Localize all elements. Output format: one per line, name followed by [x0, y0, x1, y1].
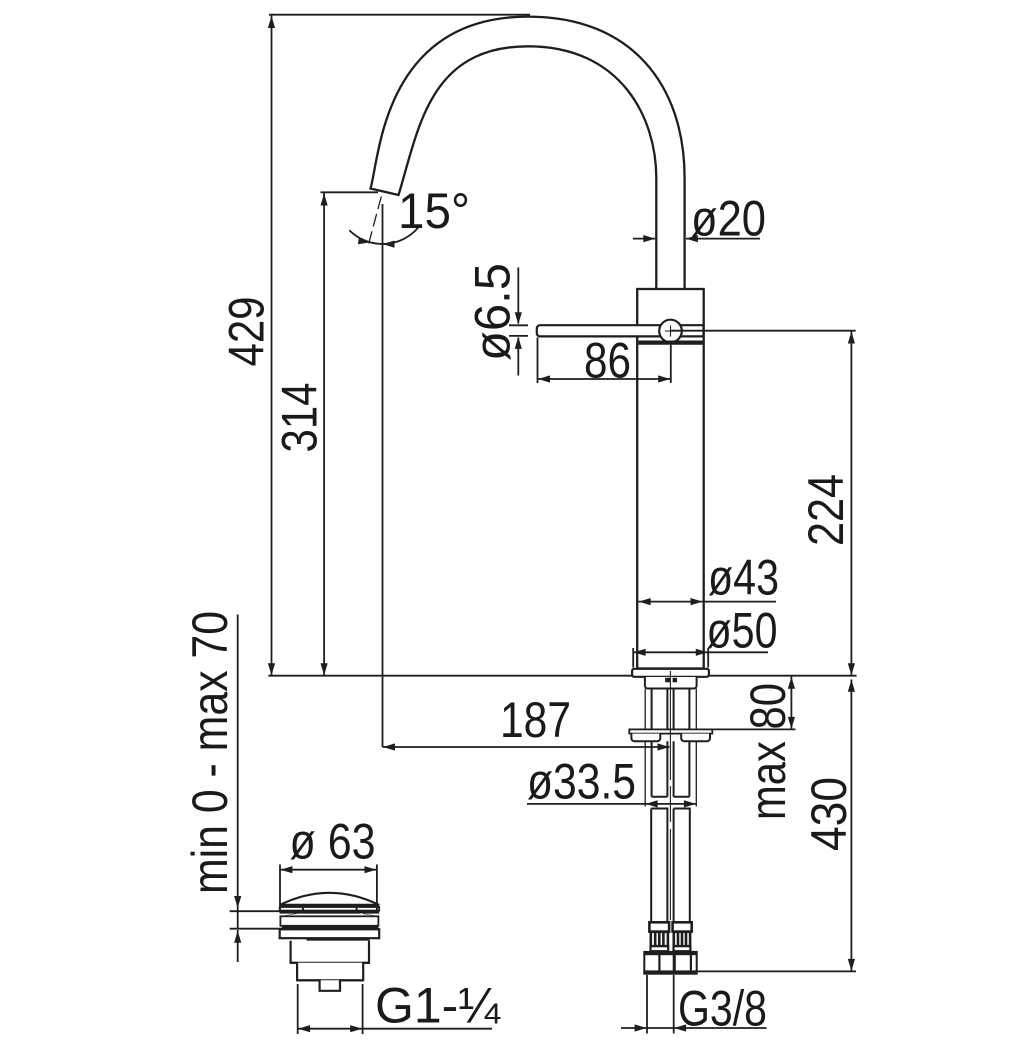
dim G1-1/4 extension lines — [298, 984, 363, 1034]
dim o63 extension lines — [280, 865, 377, 914]
svg-text:ø43: ø43 — [708, 550, 779, 606]
15deg arc right arrow — [383, 241, 395, 248]
dim o33.5 right arrow — [684, 800, 696, 807]
deck line left segment — [268, 675, 632, 677]
dim o6.5 ticks — [509, 325, 528, 336]
drain barrel — [291, 941, 369, 963]
svg-text:G1-¼: G1-¼ — [375, 978, 501, 1034]
svg-text:314: 314 — [272, 383, 328, 453]
dim o6.5 upper arrow — [515, 312, 522, 324]
min0max70 up arrow — [234, 931, 241, 943]
dim 187 line — [383, 746, 670, 748]
lever handle rod — [537, 325, 704, 336]
dim G3/8 left arrow — [635, 1024, 647, 1031]
svg-text:429: 429 — [219, 297, 275, 367]
right hose nipple band — [674, 946, 691, 951]
svg-text:86: 86 — [584, 333, 631, 389]
dim 224 top arrow — [848, 332, 855, 344]
dim o63 right arrow — [365, 866, 377, 873]
dim 314 top extension line — [321, 191, 379, 193]
drain cap bottom rim thick line — [280, 904, 380, 907]
15deg angle arc — [349, 228, 418, 244]
dim 430 vertical line — [850, 680, 852, 971]
svg-text:15°: 15° — [398, 183, 470, 239]
collar thread marks — [665, 678, 670, 683]
svg-text:ø 63: ø 63 — [290, 814, 376, 870]
min0max70 lower stub line — [237, 930, 239, 962]
spout gooseneck tube outline — [371, 17, 685, 290]
base plate — [632, 669, 709, 677]
hose walls mid segment — [652, 741, 690, 797]
shank collar — [645, 677, 697, 689]
min0max70 down arrow — [234, 896, 241, 908]
right hex nut — [675, 952, 697, 974]
dim 86 right extension line — [670, 343, 672, 383]
dim 86 line — [538, 378, 671, 380]
15deg arc left arrow — [358, 237, 371, 246]
dim 187 left arrow — [383, 743, 395, 750]
rim band notches — [303, 907, 357, 911]
dim 429 bottom arrow — [268, 663, 275, 675]
under flange shadow — [307, 938, 370, 940]
svg-text:ø33.5: ø33.5 — [527, 754, 636, 810]
dim 314 bottom arrow — [321, 663, 328, 675]
dim o50 left arrow — [634, 649, 646, 656]
svg-text:ø20: ø20 — [691, 191, 766, 247]
left mounting nut block — [631, 734, 660, 742]
dim 314 vertical line — [323, 193, 325, 675]
dim o20 right line — [686, 238, 760, 240]
svg-text:ø50: ø50 — [707, 603, 778, 659]
dim 430 top arrow — [848, 680, 855, 692]
right hose ribbed section — [674, 932, 690, 946]
deck line right segment — [709, 675, 857, 677]
right hose crimp collar — [673, 922, 692, 931]
min0max70 tick lines — [230, 911, 283, 929]
dim o33.5 left arrow — [646, 800, 658, 807]
left hose ribbed section — [651, 932, 668, 946]
dim 430 bottom arrow — [848, 959, 855, 971]
dim G3/8 right arrow — [674, 1024, 686, 1031]
dim 86 left extension line — [537, 338, 539, 384]
dim o43 line — [639, 601, 777, 603]
svg-text:ø6.5: ø6.5 — [465, 263, 521, 361]
dim G1-1/4 right arrow — [350, 1025, 362, 1032]
dim o20 right arrow — [686, 235, 698, 242]
svg-text:max 80: max 80 — [740, 683, 796, 820]
dim 224 vertical line — [850, 332, 852, 676]
dim G1-1/4 line — [298, 1028, 492, 1030]
centre axis line — [669, 671, 671, 920]
dim o50 extension lines — [633, 648, 708, 668]
spout tip vertical extension line — [382, 204, 384, 747]
drain barrel step — [291, 963, 369, 981]
left hose nipple band — [651, 946, 669, 951]
dim 86 left arrow — [538, 375, 550, 382]
shank bottom caps — [652, 796, 690, 798]
dim max80 bottom arrow — [788, 717, 795, 729]
dim o6.5 lower arrow — [515, 337, 522, 349]
drain cylinder band — [280, 916, 378, 926]
dim o43 right arrow — [691, 598, 703, 605]
upper gasket — [280, 911, 380, 917]
dim max80 top arrow — [788, 677, 795, 689]
dim 314 top arrow — [321, 194, 328, 206]
dim 429 top arrow — [268, 16, 275, 28]
dim 429 top extension line — [269, 14, 530, 16]
dim o63 left arrow — [280, 866, 292, 873]
svg-text:187: 187 — [500, 692, 571, 748]
spout tip 15deg dashed line — [369, 197, 382, 244]
dim o63 line — [280, 869, 377, 871]
dim 224 bottom arrow — [848, 663, 855, 675]
dim o20 left line — [633, 238, 655, 240]
svg-text:min 0 - max 70: min 0 - max 70 — [182, 611, 238, 894]
right mounting nut block — [681, 734, 710, 742]
shank outer walls / dia33.5 extension lines — [645, 689, 696, 807]
dim 187 right arrow — [658, 743, 670, 750]
mounting washer plate — [629, 729, 712, 733]
dim G3/8 extension lines — [647, 975, 674, 1034]
dim 429 vertical line — [271, 16, 273, 676]
dim G1-1/4 left arrow — [298, 1025, 310, 1032]
dim min0max70 vertical line — [237, 615, 239, 930]
dim o50 right arrow — [696, 649, 708, 656]
drain cap dome — [280, 893, 380, 905]
dim max80 vertical line — [790, 677, 792, 730]
left hex nut — [644, 952, 673, 974]
max80 extension line at washer plate — [713, 728, 796, 730]
drain cap rim band — [280, 907, 380, 911]
drain bottom tab — [297, 980, 363, 991]
lower gasket — [281, 926, 380, 929]
hose walls upper segment — [652, 689, 690, 730]
dim o50 line — [633, 651, 768, 653]
dim 86 right arrow — [658, 375, 670, 382]
left hose crimp collar — [649, 922, 669, 931]
dim o6.5 upper line — [517, 267, 519, 323]
dim o6.5 lower line — [517, 338, 519, 376]
dim o33.5 line — [527, 803, 696, 805]
faucet body column — [637, 289, 704, 669]
nut bottom reference line — [697, 970, 856, 972]
svg-text:224: 224 — [798, 474, 854, 546]
lever pivot circle — [659, 320, 682, 343]
dim o43 left arrow — [639, 598, 651, 605]
svg-text:430: 430 — [801, 777, 857, 851]
drain flange — [280, 929, 380, 938]
svg-text:G3/8: G3/8 — [678, 981, 767, 1037]
lever reference line for 224 — [671, 330, 856, 332]
dim o20 left arrow — [643, 235, 655, 242]
pivot cross mark — [665, 326, 676, 337]
body seam thick line — [638, 341, 702, 345]
dim G3/8 line — [621, 1027, 767, 1029]
hoses lower segment — [651, 809, 690, 923]
